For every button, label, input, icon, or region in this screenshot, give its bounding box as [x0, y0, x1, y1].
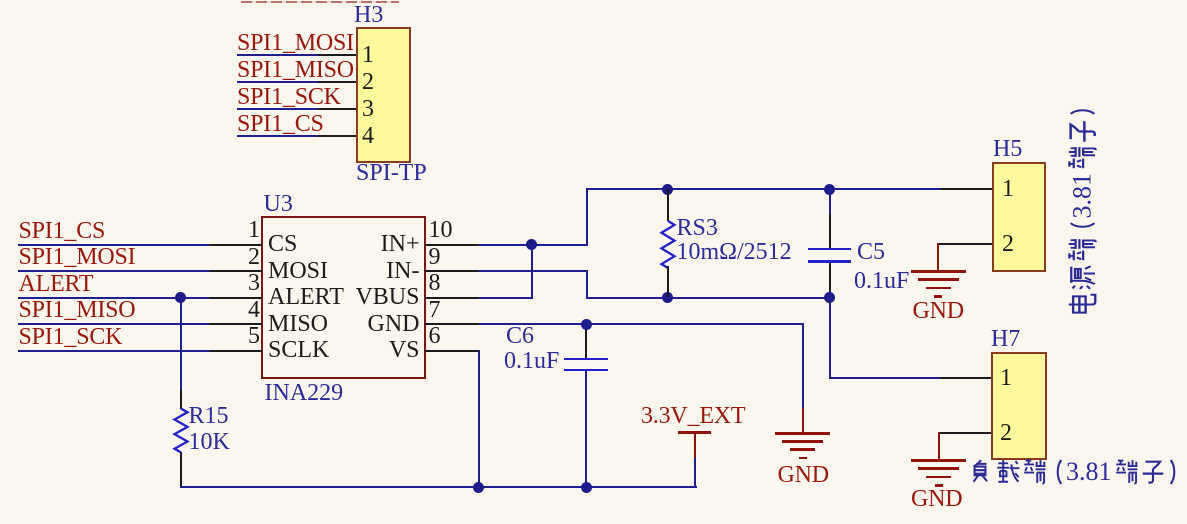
wire IN- drop	[586, 270, 588, 298]
U3 pin name IN-	[386, 259, 419, 283]
wire SPI1_CS to H3 pin4	[237, 135, 318, 137]
wire to H7 pin1	[829, 377, 941, 379]
C5 bottom pin stub	[829, 263, 831, 293]
power port 3.3V_EXT stem	[694, 434, 696, 458]
net label SPI1_MOSI (U3)	[19, 245, 136, 269]
U3 pin number 6	[429, 324, 441, 348]
R15 top pin stub	[180, 390, 182, 409]
resistor RS3 zigzag	[660, 216, 676, 306]
net label SPI1_MISO	[237, 58, 354, 82]
H3 pin 1 stub	[318, 54, 356, 56]
wire C6 bottom to rail	[585, 371, 587, 486]
RS3 bottom pin stub	[667, 266, 669, 297]
wire ALERT down to R15	[180, 298, 182, 391]
ground bar 3 (H7)	[926, 476, 951, 479]
ground stem (H7 pin2)	[938, 432, 940, 460]
junction dot C5 top	[824, 184, 835, 195]
U3 pin number 4	[248, 298, 260, 322]
value 0.1uF (C6)	[504, 349, 559, 373]
wire SPI1_MISO to U3 pin4	[18, 323, 211, 325]
H3 pin number 3	[362, 97, 374, 121]
U3 pin 1 stub	[210, 244, 262, 246]
U3 pin number 1	[248, 218, 260, 242]
R15 bottom pin stub	[180, 452, 182, 487]
cropped text fragment at top edge	[241, 1, 399, 3]
designator U3	[264, 192, 293, 216]
capacitor C6 plate 2	[564, 369, 608, 372]
H3 pin number 1	[362, 43, 374, 67]
wire bottom rail	[180, 486, 697, 488]
wire IN- from pin9	[478, 270, 588, 272]
H5 pin 1 stub	[941, 188, 993, 190]
ground bar 4 (H7)	[935, 484, 943, 487]
label SPI-TP	[356, 161, 427, 185]
junction dot C6 / rail	[581, 482, 592, 493]
wire mid rail	[586, 297, 831, 299]
designator C5	[857, 240, 885, 264]
net label SPI1_MOSI	[237, 31, 354, 55]
U3 pin name MOSI	[268, 259, 328, 283]
net label 3.3V_EXT	[641, 404, 745, 428]
U3 pin name CS	[268, 232, 297, 256]
H3 pin 4 stub	[318, 135, 356, 137]
C6 top pin stub	[585, 324, 587, 358]
wire C5 top	[829, 188, 831, 215]
wire VBUS from pin8	[478, 297, 533, 299]
wire ALERT to U3 pin3	[18, 297, 211, 299]
U3 pin number 5	[248, 324, 260, 348]
net label SPI1_CS	[237, 112, 324, 136]
wire SPI1_CS to U3 pin1	[18, 244, 211, 246]
U3 pin 8 stub	[425, 297, 478, 299]
U3 pin name ALERT	[268, 285, 344, 309]
ground bar 3	[790, 448, 815, 451]
designator H7	[991, 327, 1020, 351]
ground bar 1 (H5)	[911, 270, 966, 273]
value INA229	[265, 381, 344, 405]
wire GND drop	[802, 323, 804, 408]
RS3 top pin stub	[667, 189, 669, 221]
C5 top pin stub	[829, 214, 831, 248]
power port 3.3V_EXT bar	[678, 431, 711, 434]
capacitor C5 plate 1	[808, 248, 851, 251]
designator H3	[354, 3, 383, 27]
U3 pin number 10	[429, 218, 453, 242]
wire SPI1_MOSI to U3 pin2	[18, 270, 211, 272]
H7 pin 2 stub	[938, 432, 991, 434]
ground stem (H5 pin2)	[937, 243, 939, 271]
H3 pin 2 stub	[318, 81, 356, 83]
ground symbol stem (U3 GND)	[802, 408, 804, 434]
designator RS3	[677, 216, 718, 240]
wire SPI1_SCK to H3 pin3	[237, 108, 318, 110]
H5 pin number 2	[1002, 232, 1014, 256]
capacitor C6 plate 1	[564, 358, 608, 361]
U3 pin 7 stub	[425, 323, 478, 325]
U3 pin name SCLK	[268, 338, 329, 362]
label GND (H5)	[913, 299, 964, 323]
ground bar 4	[799, 457, 807, 460]
resistor R15 zigzag	[173, 403, 189, 493]
wire riser to 3.3V_EXT	[694, 458, 696, 488]
designator C6	[506, 324, 534, 348]
capacitor C5 plate 2	[808, 260, 851, 263]
ground bar 1	[775, 432, 830, 435]
connector H3 body	[356, 27, 411, 163]
caption 负载端（3.81端子）	[967, 459, 1183, 484]
U3 pin 6 stub	[425, 350, 478, 352]
U3 pin number 9	[429, 245, 441, 269]
junction dot RS3 bottom	[662, 292, 673, 303]
U3 pin 2 stub	[210, 270, 262, 272]
U3 pin name GND	[368, 312, 420, 336]
U3 pin name VS	[389, 338, 420, 362]
U3 pin name MISO	[268, 312, 328, 336]
H7 pin number 2	[1000, 421, 1012, 445]
junction dot VS / rail	[473, 482, 484, 493]
U3 pin number 3	[248, 271, 260, 295]
ground bar 3 (H5)	[926, 287, 951, 290]
wire IN+ from pin10	[478, 244, 588, 246]
U3 pin number 2	[248, 245, 260, 269]
label GND (H7)	[911, 487, 962, 511]
net label ALERT	[19, 272, 94, 296]
junction dot RS3 top	[662, 184, 673, 195]
net label SPI1_SCK	[237, 85, 341, 109]
wire SPI1_MISO to H3 pin2	[237, 81, 318, 83]
U3 pin 10 stub	[425, 244, 478, 246]
wire SPI1_MOSI to H3 pin1	[237, 54, 318, 56]
wire down to H7 level	[829, 297, 831, 379]
U3 pin number 7	[429, 298, 441, 322]
value 10K	[189, 430, 230, 454]
designator R15	[189, 404, 229, 428]
U3 pin number 8	[429, 271, 441, 295]
label GND (U3)	[778, 463, 829, 487]
U3 pin 3 stub	[210, 297, 262, 299]
connector H5 body	[992, 162, 1046, 272]
U3 pin name VBUS	[355, 285, 419, 309]
net label SPI1_MISO (U3)	[19, 298, 136, 322]
ground bar 2	[782, 440, 823, 443]
connector H7 body	[991, 352, 1047, 460]
wire IN+ riser	[586, 188, 588, 245]
H3 pin number 2	[362, 70, 374, 94]
ground bar 2 (H5)	[918, 278, 959, 281]
wire C5 bottom	[829, 291, 831, 298]
junction dot C5 bottom	[824, 292, 835, 303]
net label SPI1_SCK (U3)	[19, 325, 123, 349]
caption 电源端（3.81端子） vertical	[1069, 103, 1095, 318]
junction dot on ALERT wire	[175, 292, 186, 303]
U3 pin name IN+	[381, 232, 420, 256]
ground bar 4 (H5)	[934, 295, 942, 298]
H3 pin number 4	[362, 124, 374, 148]
op-amp U3 body	[261, 216, 426, 379]
wire SPI1_SCK to U3 pin5	[18, 350, 211, 352]
wire top rail	[586, 188, 941, 190]
H5 pin 2 stub	[937, 243, 992, 245]
wire VS drop from pin6	[478, 350, 480, 488]
ground bar 1 (H7)	[911, 459, 966, 462]
net label SPI1_CS (U3)	[19, 219, 106, 243]
value 10mOhm/2512	[677, 240, 792, 264]
U3 pin 5 stub	[210, 350, 262, 352]
value 0.1uF (C5)	[854, 269, 909, 293]
junction dot IN+	[526, 239, 537, 250]
wire IN+ to VBUS link	[531, 244, 533, 299]
designator H5	[993, 137, 1022, 161]
junction dot C6 / GND wire	[581, 319, 592, 330]
ground bar 2 (H7)	[918, 467, 959, 470]
H3 pin 3 stub	[318, 108, 356, 110]
H7 pin number 1	[1000, 366, 1012, 390]
H7 pin 1 stub	[941, 377, 991, 379]
wire GND from pin7	[478, 323, 804, 325]
H5 pin number 1	[1002, 177, 1014, 201]
U3 pin 4 stub	[210, 323, 262, 325]
U3 pin 9 stub	[425, 270, 478, 272]
